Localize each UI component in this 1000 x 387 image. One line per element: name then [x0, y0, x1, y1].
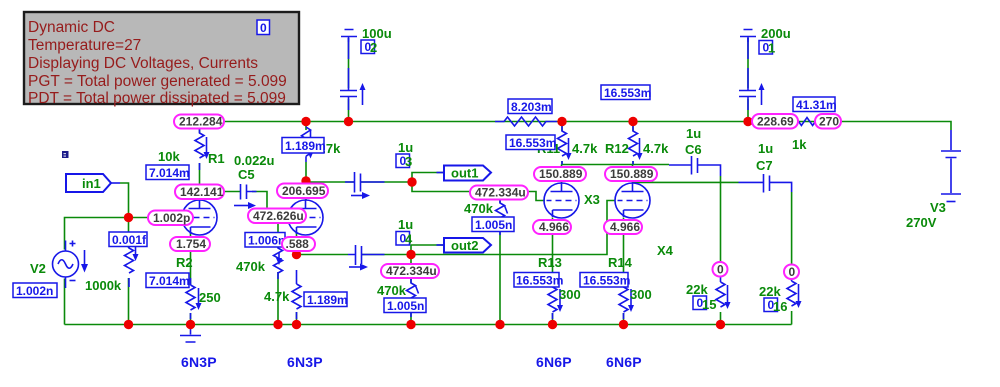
svg-text:1.005n: 1.005n	[387, 299, 424, 313]
node dot gnd-R2	[186, 320, 195, 329]
svg-text:212.284: 212.284	[179, 115, 223, 129]
oval 150.889 X3	[534, 167, 586, 181]
node dot out2	[406, 250, 415, 259]
vbox 8.203m	[508, 99, 552, 114]
wire plate node to C5	[200, 191, 241, 193]
svg-text:4: 4	[405, 232, 413, 247]
resistor 8.203m on rail	[495, 117, 557, 126]
capacitor C3 1u	[345, 172, 385, 199]
oval 1.002p	[148, 211, 193, 226]
svg-text:470k: 470k	[377, 283, 407, 298]
oval 4.966 X4	[604, 220, 642, 234]
svg-text:in1: in1	[82, 176, 101, 191]
resistor R14 300	[619, 281, 634, 319]
vbox 0 C2	[361, 40, 377, 55]
node dot gnd-470k-X3	[495, 320, 504, 329]
wire out1 junction to flag	[412, 173, 444, 183]
wire tube2 plate resistor top	[305, 122, 307, 131]
vbox 41.31m	[793, 97, 837, 112]
svg-text:X3: X3	[584, 192, 600, 207]
svg-text:470k: 470k	[236, 259, 266, 274]
svg-text:1u: 1u	[758, 141, 773, 156]
capacitor C7 1u	[739, 174, 792, 193]
svg-text:out1: out1	[451, 166, 478, 181]
svg-text:R13: R13	[538, 255, 562, 270]
svg-text:41.31m: 41.31m	[796, 98, 837, 112]
svg-text:V2: V2	[30, 261, 46, 276]
flag out2	[437, 238, 492, 253]
vbox 16.553m R13	[514, 273, 563, 288]
vbox 7.014m R1	[146, 165, 190, 180]
svg-text:R1: R1	[208, 151, 225, 166]
vbox 0 R15	[693, 296, 716, 312]
oval 228.69	[752, 114, 798, 129]
svg-text:16: 16	[773, 299, 787, 314]
svg-text:1k: 1k	[792, 137, 807, 152]
svg-text:1.754: 1.754	[176, 237, 206, 251]
wire V2 bottom branch	[64, 279, 66, 325]
wire R2 bottom	[190, 313, 192, 325]
svg-text:150.889: 150.889	[539, 167, 583, 181]
resistor R12 4.7k	[629, 125, 643, 165]
wire tube2 plate to C3	[306, 181, 354, 183]
wire R11 top lead	[561, 122, 563, 132]
vbox 0.001f	[109, 232, 147, 247]
wire X4 cathode to R14	[623, 218, 625, 288]
svg-text:200u: 200u	[761, 26, 791, 41]
svg-text:1.002n: 1.002n	[16, 284, 53, 298]
wire 470k tube2-grid leg	[277, 218, 279, 325]
ground above C2	[341, 30, 357, 43]
svg-text:0: 0	[260, 21, 267, 35]
svg-text:1.002p: 1.002p	[153, 211, 190, 225]
vbox 1.006n	[245, 233, 285, 248]
wire tube2 plate node	[305, 162, 307, 200]
svg-text:.588: .588	[286, 237, 310, 251]
svg-text:Displaying DC Voltages, Curren: Displaying DC Voltages, Currents	[28, 55, 258, 72]
resistor R1 10k	[195, 127, 210, 170]
battery V3	[941, 130, 961, 202]
node dot gnd-47k-t2	[292, 320, 301, 329]
wire C7 right to 22k-2	[791, 192, 793, 264]
node dot tube2 plate	[301, 176, 310, 185]
wire tube2 cathode node	[296, 233, 298, 259]
svg-text:16.553m: 16.553m	[583, 274, 630, 288]
svg-text:7.014m: 7.014m	[149, 274, 190, 288]
vbox 1.189m tube2 plate	[282, 138, 326, 154]
wire 22k-1 bottom lead	[720, 312, 722, 325]
svg-text:PGT = Total power generated =: PGT = Total power generated = 5.099	[28, 73, 287, 90]
resistor R11 4.7k	[558, 125, 572, 165]
resistor 22k R15	[716, 277, 731, 309]
triode X3 6N6P	[544, 183, 579, 218]
wire 470k X3-grid leg	[499, 192, 501, 325]
wire out1 junction to X3 grid	[412, 182, 545, 201]
flag out1	[437, 166, 492, 181]
wire C2 bottom lead	[348, 99, 350, 122]
node dot gnd-R14	[619, 320, 628, 329]
wire tube1 grid	[129, 217, 183, 219]
svg-text:4.7k: 4.7k	[264, 289, 290, 304]
svg-text:0: 0	[789, 265, 796, 279]
oval 206.695	[277, 184, 328, 199]
svg-text:10k: 10k	[158, 149, 180, 164]
svg-text:1000k: 1000k	[85, 278, 122, 293]
svg-text:270V: 270V	[906, 215, 937, 230]
wire cathode node to C4	[297, 254, 349, 256]
svg-text:1.189m: 1.189m	[307, 293, 348, 307]
svg-text:X4: X4	[657, 243, 674, 258]
oval 150.889 X4	[605, 167, 657, 181]
svg-text:C5: C5	[238, 167, 255, 182]
vbox 1.005n X4 grid	[384, 298, 426, 313]
oval 142.141	[175, 185, 224, 200]
svg-text:228.69: 228.69	[757, 115, 794, 129]
oval 0 node R16	[784, 265, 799, 280]
wire X3 plate lead	[561, 165, 563, 184]
node dot in-grid	[124, 213, 133, 222]
wire 1000k leg	[128, 218, 130, 325]
svg-text:100u: 100u	[362, 26, 392, 41]
vbox 0 info	[257, 20, 270, 35]
svg-text:R12: R12	[605, 141, 629, 156]
capacitor C6 1u	[669, 156, 721, 176]
svg-text:C7: C7	[756, 158, 773, 173]
node dot gnd-470k-t2	[273, 320, 282, 329]
svg-text:15: 15	[702, 297, 716, 312]
vbox 16.553m R11	[506, 135, 556, 150]
vbox 1.002n V2	[13, 283, 57, 298]
svg-text:4.966: 4.966	[610, 220, 640, 234]
triode tube2 6N3P	[288, 200, 323, 235]
wire C1 bottom lead	[747, 99, 749, 122]
svg-text:16.553m: 16.553m	[604, 86, 651, 100]
wire 22k-2 bottom lead	[791, 311, 793, 325]
svg-text:16.553m: 16.553m	[509, 136, 556, 150]
triode tube1 6N3P	[182, 200, 217, 235]
resistor 4.7k tube2 plate	[302, 127, 314, 162]
node dot gnd-22k1	[716, 320, 725, 329]
svg-text:1: 1	[768, 41, 775, 56]
svg-text:6N6P: 6N6P	[606, 354, 642, 370]
wire R14 bottom lead	[623, 313, 625, 325]
wire C5 to tube2 grid	[252, 192, 288, 218]
svg-text:0.022u: 0.022u	[234, 153, 275, 168]
triode X4 6N6P	[615, 183, 650, 218]
svg-text:Temperature=27: Temperature=27	[28, 37, 141, 54]
svg-text:out2: out2	[451, 238, 478, 253]
svg-text:1u: 1u	[398, 217, 413, 232]
wire C4 to out2 junction	[362, 254, 411, 256]
wire C1 ground stub	[747, 38, 749, 88]
vbox 1.189m tube2 cathode	[304, 292, 348, 307]
wire R1 bottom to plate node	[199, 163, 201, 200]
svg-text:1.005n: 1.005n	[475, 218, 512, 232]
node dot rail-R12	[628, 117, 637, 126]
vbox 16.553m R12	[601, 85, 651, 100]
node dot rail-C1	[743, 117, 752, 126]
node dot gnd-R13	[548, 320, 557, 329]
svg-text:C6: C6	[685, 142, 702, 157]
node dot rail-tube2res	[301, 117, 310, 126]
marker small square	[62, 151, 69, 158]
svg-text:470k: 470k	[464, 201, 494, 216]
resistor 22k R16	[787, 279, 802, 308]
source V2	[53, 241, 89, 289]
node dot gnd-1000k	[124, 320, 133, 329]
oval 472.626u	[248, 209, 306, 224]
oval 270	[815, 114, 841, 129]
svg-text:6N6P: 6N6P	[536, 354, 572, 370]
wire X3 cathode to R13	[552, 218, 554, 288]
svg-text:1u: 1u	[686, 126, 701, 141]
node dot tube2 cathode	[292, 250, 301, 259]
ground above C1	[740, 30, 756, 43]
oval 472.334u X3	[470, 186, 528, 200]
svg-text:472.334u: 472.334u	[386, 264, 437, 278]
svg-text:3: 3	[405, 154, 412, 169]
svg-text:4.966: 4.966	[539, 220, 569, 234]
wire R13 bottom lead	[552, 313, 554, 325]
svg-text:Dynamic DC: Dynamic DC	[28, 19, 115, 36]
resistor R13 300	[548, 281, 563, 319]
svg-text:6N3P: 6N3P	[287, 354, 323, 370]
wire in1 to grid junction	[120, 183, 129, 218]
svg-text:V3: V3	[930, 200, 946, 215]
wire R12 bottom lead	[632, 161, 634, 165]
svg-text:0.001f: 0.001f	[112, 233, 147, 247]
svg-text:PDT = Total power dissipated =: PDT = Total power dissipated = 5.099	[28, 90, 286, 107]
svg-text:250: 250	[199, 290, 221, 305]
svg-text:R14: R14	[608, 255, 633, 270]
vbox 16.553m R14	[580, 273, 630, 288]
oval .588	[282, 237, 315, 251]
wire tube1 cathode to R2	[190, 233, 192, 285]
svg-text:4.7k: 4.7k	[643, 141, 669, 156]
wire C3 to out1 junction	[361, 181, 412, 183]
svg-text:0: 0	[717, 263, 724, 277]
wire top supply rail	[200, 122, 952, 131]
wire bottom ground rail	[65, 324, 792, 326]
oval 212.284	[174, 115, 224, 129]
svg-text:472.334u: 472.334u	[475, 186, 526, 200]
oval 0 node R15	[713, 262, 728, 277]
wire out2 junction to flag	[411, 245, 444, 255]
capacitor C1 200u	[739, 38, 765, 110]
wire C2 ground stub	[348, 38, 350, 88]
svg-text:1.006n: 1.006n	[248, 234, 285, 248]
oval 472.334u X4	[381, 264, 439, 278]
wire X4 plate lead	[632, 165, 634, 184]
resistor 1k on rail	[793, 118, 821, 126]
wire 470k X4-grid leg	[410, 255, 412, 325]
resistor 470k X4 grid	[407, 277, 419, 317]
wire V2 top branch	[65, 218, 129, 250]
info box	[24, 12, 299, 107]
svg-text:16.553m: 16.553m	[516, 274, 563, 288]
svg-text:8.203m: 8.203m	[511, 100, 552, 114]
svg-text:270: 270	[819, 115, 839, 129]
wire R1 top lead	[199, 122, 201, 134]
svg-text:142.141: 142.141	[180, 185, 224, 199]
capacitor C2 100u	[340, 38, 366, 110]
vbox 0 C3	[396, 154, 412, 169]
vbox 0 C4	[396, 232, 413, 247]
capacitor C5 0.022u	[234, 184, 257, 209]
wire R11 bottom / plate rail	[562, 161, 669, 165]
vbox 7.014m R2	[146, 273, 190, 288]
oval 4.966 X3	[533, 220, 571, 234]
oval 1.754	[170, 237, 210, 251]
wire out2 junction to X4 grid	[411, 201, 616, 255]
vbox 0 C1	[759, 41, 775, 56]
vbox 1.005n X3 grid	[472, 217, 514, 232]
svg-text:7.014m: 7.014m	[149, 166, 190, 180]
node dot out1	[407, 177, 416, 186]
svg-text:6N3P: 6N3P	[181, 354, 217, 370]
node dot rail-C2	[344, 117, 353, 126]
svg-text:R2: R2	[176, 255, 193, 270]
svg-text:150.889: 150.889	[610, 167, 654, 181]
resistor 470k tube2 grid	[274, 242, 283, 279]
resistor R2 250	[186, 278, 202, 319]
svg-text:206.695: 206.695	[282, 184, 326, 198]
wire C6 right to 22k-1	[720, 176, 722, 262]
capacitor C4 1u	[348, 245, 385, 271]
wire tube2 cathode 4.7k leg	[296, 312, 298, 325]
resistor 470k X3 grid	[496, 197, 508, 235]
wire R12 top lead	[632, 122, 634, 132]
vbox 0 R16	[764, 298, 787, 314]
ground below R2	[180, 325, 201, 343]
resistor 4.7k tube2 cathode	[276, 252, 301, 319]
svg-text:4.7k: 4.7k	[572, 141, 598, 156]
svg-text:1u: 1u	[398, 140, 413, 155]
flag in1	[66, 174, 120, 192]
resistor 1000k	[125, 239, 139, 287]
svg-text:300: 300	[559, 287, 581, 302]
wire X4 plate to C7	[633, 181, 739, 183]
svg-text:300: 300	[630, 287, 652, 302]
node dot rail-R11	[557, 117, 566, 126]
svg-text:22k: 22k	[686, 282, 708, 297]
node dot gnd-470k-X4	[406, 320, 415, 329]
svg-text:1.189m: 1.189m	[285, 139, 326, 153]
svg-text:2: 2	[370, 40, 377, 55]
svg-text:472.626u: 472.626u	[253, 209, 304, 223]
svg-text:22k: 22k	[759, 284, 781, 299]
